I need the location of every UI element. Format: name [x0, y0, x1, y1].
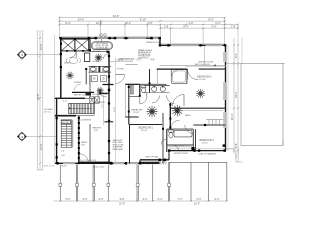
dim extension verticals top	[59, 18, 238, 66]
wall bottom main	[55, 162, 140, 164]
bath2 walls	[167, 128, 194, 130]
svg-text:GIRDER TRUSS: GIRDER TRUSS	[174, 153, 189, 155]
svg-text:LINE OF GARAGE: LINE OF GARAGE	[198, 153, 216, 156]
svg-text:6'-8": 6'-8"	[147, 21, 152, 25]
svg-text:5'-2": 5'-2"	[102, 104, 104, 108]
svg-text:9'-8": 9'-8"	[120, 198, 125, 201]
svg-text:5'-0": 5'-0"	[211, 24, 216, 28]
interior dim x103.3	[102, 94, 104, 125]
bath2 toilet	[169, 130, 174, 132]
wall y69.1 right segment	[199, 68, 226, 70]
svg-text:16'-4": 16'-4"	[231, 114, 234, 120]
bedroom2 fan	[196, 89, 205, 98]
hall double door arcs	[152, 96, 160, 104]
entry door arc	[98, 89, 107, 98]
wall y117	[125, 116, 138, 118]
deck hatch bar	[140, 161, 167, 164]
datum symbol B (lower left)	[17, 132, 56, 141]
svg-text:DN 13R: DN 13R	[62, 122, 70, 124]
step bottom x169	[168, 151, 170, 160]
svg-text:11'x12': 11'x12'	[141, 130, 148, 132]
svg-text:ABV 2-2x10 HDR: ABV 2-2x10 HDR	[195, 63, 210, 66]
bay verticals	[60, 162, 227, 201]
svg-text:3'-0": 3'-0"	[61, 151, 65, 153]
svg-text:12'-6": 12'-6"	[96, 21, 103, 25]
laundry appliances	[90, 97, 100, 103]
svg-text:12'-4": 12'-4"	[39, 143, 43, 150]
bottom dim ticks	[59, 200, 228, 202]
svg-text:GREAT ROOM: GREAT ROOM	[146, 41, 160, 44]
kitchen counter bar	[72, 91, 94, 93]
svg-text:8'-4": 8'-4"	[65, 21, 70, 25]
big door arc bedroom2	[173, 95, 185, 107]
great room fan 2	[172, 105, 183, 116]
svg-text:11'x10': 11'x10'	[199, 79, 206, 81]
bottom dimension line	[54, 200, 228, 202]
mech door arc	[80, 154, 89, 163]
svg-text:4'-0": 4'-0"	[188, 21, 193, 25]
svg-text:7'-2": 7'-2"	[178, 198, 183, 201]
wall x128.8 vertical	[128, 84, 130, 124]
corridor door arc	[161, 139, 167, 145]
base cabinet 1	[91, 76, 97, 82]
left dim rotated texts	[36, 43, 43, 150]
shower door arc	[172, 71, 178, 77]
svg-text:7'-0": 7'-0"	[166, 158, 170, 160]
svg-text:2'-8: 2'-8	[231, 24, 236, 28]
wall y84.5 left seg	[103, 84, 114, 86]
svg-text:RATED ASSY: RATED ASSY	[113, 148, 125, 151]
window glazing overlays	[63, 38, 226, 164]
pantry door arc	[116, 74, 125, 76]
step corner jamb	[159, 44, 161, 47]
svg-text:10'-0": 10'-0"	[39, 43, 43, 50]
svg-text:5'-4": 5'-4"	[183, 24, 188, 28]
hall wall horizontal y84.3	[125, 83, 139, 85]
wall x166.8 mid	[166, 129, 168, 152]
svg-text:16'x7' O.H. DOOR: 16'x7' O.H. DOOR	[80, 160, 97, 162]
svg-text:ISLAND: ISLAND	[93, 60, 100, 63]
svg-text:FOYER: FOYER	[117, 69, 124, 71]
wing bottom corner tick	[282, 139, 284, 146]
wall bottom middle	[140, 159, 169, 161]
stair inner stringer x72.8	[72, 120, 74, 148]
svg-text:2x6: 2x6	[61, 155, 65, 157]
svg-text:2'-8: 2'-8	[164, 24, 169, 28]
svg-text:24'-0": 24'-0"	[78, 17, 85, 21]
dimension tier 4 right	[160, 27, 238, 29]
svg-text:5'-0": 5'-0"	[143, 198, 148, 201]
bath2 tub	[174, 130, 192, 137]
wall top exterior right section	[160, 44, 226, 46]
bottom right garage outline line	[169, 161, 227, 163]
svg-text:9'x6': 9'x6'	[81, 144, 86, 146]
upper bath tub	[171, 70, 187, 84]
bedroom1 right wall	[162, 113, 164, 163]
kitchen peninsula end	[86, 93, 92, 96]
svg-text:24'-0": 24'-0"	[235, 92, 238, 98]
datum symbol A (upper left)	[17, 50, 60, 59]
wall top exterior left section	[60, 37, 161, 39]
left dimension column lines	[37, 30, 43, 170]
WC partition wall	[139, 84, 141, 96]
X-box skylight	[61, 39, 89, 51]
closet wall x86.2	[85, 68, 87, 84]
deck posts	[59, 183, 171, 186]
svg-text:21'-0": 21'-0"	[119, 203, 125, 206]
WC toilet	[142, 86, 146, 93]
stair 2 vertical run	[61, 120, 71, 148]
interior dim string great room	[109, 60, 133, 62]
door note block	[113, 140, 125, 151]
wall y69.1 left segment	[157, 68, 188, 70]
island divider	[98, 66, 100, 72]
dimension tick slashes	[39, 17, 239, 165]
top wall jambs	[59, 37, 161, 39]
svg-text:PANTRY 2x6: PANTRY 2x6	[74, 94, 85, 97]
svg-text:BEDROOM 1: BEDROOM 1	[139, 127, 154, 130]
bath2 south thin line	[168, 146, 192, 148]
garage door header bar 2	[141, 162, 159, 164]
svg-text:LAUNDRY: LAUNDRY	[95, 101, 106, 104]
kitchen island counter	[89, 66, 112, 72]
garage door header bar 1	[79, 162, 110, 164]
svg-text:26'-8": 26'-8"	[36, 93, 40, 100]
left wall fixtures/marks	[56, 53, 62, 159]
dense note block great room	[138, 49, 153, 60]
svg-text:28x10 CONC.: 28x10 CONC.	[93, 167, 105, 169]
svg-text:DINING: DINING	[64, 63, 72, 65]
svg-text:BEDROOM 2: BEDROOM 2	[197, 75, 212, 78]
wing top line	[226, 62, 285, 64]
window tag circles above top wall	[100, 34, 103, 37]
wall x125.3 vertical	[124, 84, 126, 117]
thin line x115.5	[115, 58, 117, 163]
bedroom1 left wall	[129, 125, 131, 164]
island sink 1	[90, 67, 97, 72]
nook fan	[97, 87, 104, 94]
corridor door arc to bedroom3	[171, 120, 180, 129]
kitchen fan	[94, 54, 102, 62]
pantry door arc small	[75, 84, 81, 90]
linen shelves	[130, 86, 133, 95]
svg-text:DINING: DINING	[74, 82, 82, 84]
svg-text:24x24: 24x24	[61, 166, 68, 168]
svg-text:6'-8": 6'-8"	[235, 143, 238, 148]
right wall window sills	[223, 52, 225, 62]
bottom dim texts	[66, 198, 220, 206]
bath divider walls	[149, 69, 151, 93]
svg-text:4'-9": 4'-9"	[99, 198, 104, 201]
svg-text:8'-0" x 7'-0": 8'-0" x 7'-0"	[44, 166, 55, 168]
bedroom2 door arc	[188, 69, 199, 80]
svg-text:LINE OF GAR.: LINE OF GAR.	[145, 155, 159, 158]
mech text block	[81, 142, 88, 146]
stair2 label box	[61, 121, 70, 124]
kitchen door arc	[104, 54, 109, 59]
wall above stair1	[55, 97, 85, 99]
girder truss line left seg	[125, 63, 137, 65]
svg-text:8'-0": 8'-0"	[208, 17, 213, 21]
dining door arc top-left	[70, 51, 77, 58]
top wall outer face	[59, 36, 160, 38]
svg-text:9'-10": 9'-10"	[140, 17, 147, 21]
dim texts top	[65, 14, 235, 29]
svg-text:OUTSIDE AIR: OUTSIDE AIR	[96, 47, 109, 50]
linen closet shelf marks	[206, 120, 223, 125]
step top wall	[159, 38, 161, 45]
bath2 door arc	[173, 145, 180, 152]
right vertical dim line 1	[233, 38, 235, 154]
right vertical dim line 2	[237, 38, 239, 154]
svg-text:11'-0": 11'-0"	[118, 59, 124, 62]
wall left exterior upper	[60, 38, 62, 98]
wall x90 lower2	[89, 124, 91, 163]
wall left exterior lower (stairwell)	[56, 98, 58, 164]
svg-text:5'-9": 5'-9"	[197, 198, 202, 201]
island sink 2	[103, 67, 110, 72]
svg-text:44'-0": 44'-0"	[113, 14, 120, 18]
bedroom3 door arc	[185, 125, 194, 134]
svg-text:6'-2": 6'-2"	[215, 21, 220, 25]
future wing rectangle	[241, 63, 283, 145]
svg-text:16" O.C.: 16" O.C.	[44, 111, 52, 113]
svg-text:BATH: BATH	[185, 114, 191, 117]
svg-text:4'-0": 4'-0"	[150, 59, 155, 62]
svg-text:11'x10': 11'x10'	[202, 143, 209, 145]
bottom wall jambs	[57, 147, 195, 165]
interior wall x90 lower	[89, 75, 91, 97]
passage door arc	[139, 97, 141, 104]
svg-text:6'-2": 6'-2"	[137, 59, 142, 62]
dimension tier 2	[59, 20, 224, 22]
kitchen top counter line	[89, 51, 109, 53]
step bottom x140	[139, 160, 141, 164]
upper bath right wall	[186, 69, 188, 84]
stair stud wall x78.8	[78, 116, 80, 164]
right dim rotated texts	[231, 53, 238, 148]
bedroom2 south wall	[170, 107, 225, 109]
left outer face line	[54, 35, 56, 164]
dining fan	[66, 72, 74, 80]
svg-text:15'x22': 15'x22'	[133, 112, 140, 114]
dimension tier 3	[59, 24, 238, 26]
bath vanity sinks	[144, 86, 170, 93]
corridor south wall y125	[193, 124, 225, 126]
stair 1 horizontal run	[69, 103, 95, 113]
bedroom3 left wall	[195, 129, 197, 151]
wall right exterior	[225, 45, 227, 151]
dimension tier 1 top	[59, 17, 224, 19]
girder truss line right seg	[160, 64, 226, 66]
garage side line right	[226, 148, 235, 150]
dining table	[66, 57, 81, 63]
svg-text:5'-6": 5'-6"	[83, 198, 88, 201]
svg-text:8'-0": 8'-0"	[235, 53, 238, 58]
hall south wall bit	[104, 121, 113, 123]
svg-text:6'-0": 6'-0"	[215, 198, 220, 201]
great room fan 1	[146, 106, 157, 117]
corridor wall x170.3	[169, 103, 171, 129]
svg-text:6'x8': 6'x8'	[94, 130, 99, 132]
note stamp oval	[101, 39, 103, 42]
svg-text:5'-6": 5'-6"	[66, 198, 71, 201]
svg-text:BEDROOM 3: BEDROOM 3	[200, 139, 215, 142]
right vertical dim line 3	[241, 38, 243, 64]
right wall outer face	[227, 45, 229, 150]
svg-text:5'-4": 5'-4"	[158, 198, 163, 201]
svg-text:5'-0": 5'-0"	[63, 101, 68, 103]
entry closet wall y93.3	[100, 92, 109, 94]
wall bottom right (line of garage)	[169, 150, 226, 152]
garage wall sill line	[169, 148, 226, 150]
svg-text:19'-0": 19'-0"	[194, 203, 200, 206]
wall under stair1	[55, 115, 76, 117]
interior wall x109 main	[108, 51, 110, 163]
interior wall x90 upper	[89, 38, 91, 51]
bedroom1 top wall	[130, 124, 163, 126]
svg-text:12'-8": 12'-8"	[114, 107, 116, 112]
kitchen fridge	[85, 53, 90, 62]
base cabinet 2	[101, 76, 107, 82]
svg-text:LINE OF DECK: LINE OF DECK	[172, 145, 185, 147]
svg-text:UP 14 RISERS: UP 14 RISERS	[77, 119, 92, 121]
